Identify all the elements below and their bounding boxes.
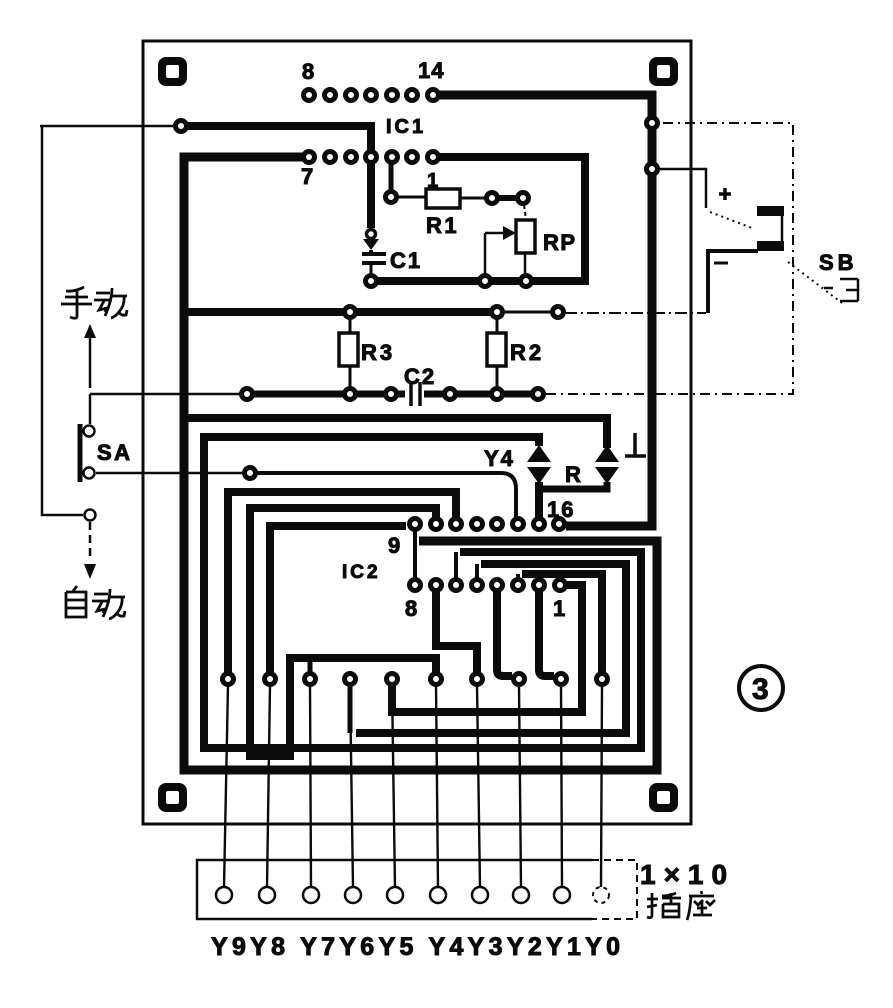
trace y394 thick xyxy=(254,391,405,398)
socket hole 10 dashed xyxy=(593,887,609,903)
wire C1 column xyxy=(367,163,375,228)
socket outline xyxy=(197,860,592,919)
trace B3: pin5 - Y6 xyxy=(356,564,626,733)
svg-text:7: 7 xyxy=(301,164,313,189)
RP wiper riser xyxy=(484,233,487,275)
svg-text:IC1: IC1 xyxy=(386,116,426,138)
stub IC2 pin6 xyxy=(454,552,458,578)
svg-text:R2: R2 xyxy=(510,340,544,365)
thick enclosure trace around R1/RP xyxy=(377,157,585,281)
capacitor C1 plates xyxy=(362,250,386,263)
trace pin2 - Y1 xyxy=(539,591,554,676)
C1 stub to pad xyxy=(370,264,373,276)
trace B4: pin3 - Y0 xyxy=(522,574,602,672)
trace y394 thick right xyxy=(424,391,532,398)
outer left wire xyxy=(42,126,83,515)
svg-text:1: 1 xyxy=(553,596,565,621)
R link triangle down xyxy=(595,467,619,484)
figure number 3 xyxy=(739,666,783,710)
pad RP top xyxy=(518,193,529,204)
manual arrow xyxy=(89,336,92,388)
wire y313 dash to SB minus xyxy=(565,312,706,314)
wire R1 pad to RP pad xyxy=(498,195,517,201)
dotted lead to contact xyxy=(710,212,752,228)
wire y312 thin right xyxy=(503,311,552,314)
switch SA lever xyxy=(78,424,83,482)
trace pin1 - Y5 xyxy=(392,585,582,712)
auto dashed arrow xyxy=(89,522,92,560)
svg-text:3: 3 xyxy=(752,673,769,706)
SB icon xyxy=(824,279,858,301)
svg-text:Y9Y8 Y7Y6Y5 Y4Y3Y2Y1Y0: Y9Y8 Y7Y6Y5 Y4Y3Y2Y1Y0 xyxy=(211,933,624,961)
svg-text:Y4: Y4 xyxy=(484,446,515,471)
wires to socket xyxy=(224,685,602,887)
pad RP bottom xyxy=(521,276,532,287)
svg-text:R: R xyxy=(565,462,581,487)
RP bottom lead xyxy=(524,253,527,275)
IC1 bottom pin row xyxy=(304,152,439,163)
stub IC2 pin8 xyxy=(413,530,417,578)
trace pin4 - Y2 xyxy=(497,591,512,676)
SB contact top xyxy=(757,206,784,216)
node left entry xyxy=(176,121,187,132)
node on right bus lower xyxy=(647,164,658,175)
wire SA trace to IC2 pin14 xyxy=(257,473,516,517)
minus sign xyxy=(714,262,728,265)
node y394 b xyxy=(386,389,397,400)
R link to pin15 column xyxy=(543,482,607,489)
resistor R2 xyxy=(496,318,499,333)
trace T5: pin9 to Y8 xyxy=(270,526,406,672)
RP wiper arrow xyxy=(485,232,504,235)
SB contact right edge xyxy=(781,214,784,243)
mounting hole bottom-left xyxy=(158,783,187,812)
R link triangle up xyxy=(595,445,619,462)
IC2 top pin row xyxy=(410,519,565,530)
svg-text:C2: C2 xyxy=(404,364,436,389)
pad R1 left xyxy=(386,192,397,203)
node on right bus upper xyxy=(647,118,658,129)
svg-text:SA: SA xyxy=(97,440,133,465)
SB contact bottom xyxy=(757,241,784,251)
supply trace y312 xyxy=(184,308,497,316)
svg-text:1×10: 1×10 xyxy=(640,859,735,890)
resistor R1 xyxy=(426,189,460,208)
wire SA lower to IC2 pin14 xyxy=(96,472,243,475)
wire IC1 pin14 to right bus and IC2 pin16 xyxy=(433,95,652,526)
trace T4: pin10 loop to Y4 band xyxy=(250,508,436,756)
node y394 R2 xyxy=(492,389,503,400)
pad R1 right xyxy=(487,193,498,204)
node below SA xyxy=(85,510,96,521)
node y394 R3 xyxy=(345,389,356,400)
node y394 a xyxy=(242,389,253,400)
node y394 c xyxy=(445,389,456,400)
trace pin7 - Y3 xyxy=(436,591,477,672)
wire R1 right lead xyxy=(460,197,486,200)
trace T2: Y4 link loop xyxy=(204,437,641,748)
wire left entry y126 xyxy=(40,125,174,128)
SB callout dotted xyxy=(788,262,842,303)
pad RP wiper bottom xyxy=(480,276,491,287)
SB minus wire xyxy=(708,251,758,313)
wire y126 to C1 column xyxy=(187,126,371,151)
mounting hole bottom-right xyxy=(649,783,678,812)
svg-text:8: 8 xyxy=(302,59,314,84)
svg-text:RP: RP xyxy=(543,230,577,255)
board outline xyxy=(143,41,691,824)
plus sign xyxy=(719,188,731,200)
dashed link pad to RP xyxy=(524,205,526,220)
svg-text:IC2: IC2 xyxy=(342,562,381,583)
auto label 自动 xyxy=(66,586,125,619)
switch SA upper contact xyxy=(84,426,95,437)
Y4 link triangle down xyxy=(527,467,551,484)
Y4 link triangle up xyxy=(527,445,551,462)
svg-text:14: 14 xyxy=(418,58,444,83)
mounting hole top-right xyxy=(649,57,678,86)
svg-text:C1: C1 xyxy=(390,248,422,273)
resistor R3 xyxy=(349,318,352,333)
svg-text:8: 8 xyxy=(405,596,417,621)
IC1 top pin row xyxy=(304,90,439,101)
socket holes xyxy=(216,887,570,903)
mounting hole top-left xyxy=(158,57,187,86)
IC2 bottom pin row xyxy=(410,580,566,591)
wire R1 left lead xyxy=(397,196,426,199)
trace T3: pin11 to Y9 xyxy=(228,492,456,672)
dashed SB enclosure xyxy=(546,123,793,394)
svg-text:1: 1 xyxy=(427,170,438,192)
pad C1 bottom xyxy=(366,276,377,287)
svg-text:SB: SB xyxy=(819,250,858,275)
svg-text:9: 9 xyxy=(388,533,400,558)
svg-text:R3: R3 xyxy=(361,340,395,365)
node y312 right xyxy=(553,307,564,318)
arrow into C1 xyxy=(367,230,376,239)
node y312 R3 xyxy=(345,307,356,318)
SB plus wire xyxy=(659,169,706,208)
svg-text:R1: R1 xyxy=(426,213,459,238)
capacitor C2 xyxy=(411,382,420,406)
switch SA lower contact xyxy=(84,468,95,479)
node y312 R2 xyxy=(492,307,503,318)
board output pads row xyxy=(223,674,608,685)
trace y394 left thin xyxy=(90,393,241,396)
potentiometer RP xyxy=(516,220,535,253)
stub Y7 xyxy=(308,658,313,672)
node y394 right xyxy=(533,389,544,400)
socket label 插座 xyxy=(647,891,715,920)
node SA trace xyxy=(245,468,256,479)
trace T1 to R link xyxy=(184,418,607,448)
ground border trace: IC1 pin7 - left border - bottom - right riser - IC2 pin8/9 xyxy=(184,157,657,770)
wire Y4 link to pin15 xyxy=(535,482,543,517)
ground mark xyxy=(625,433,646,456)
manual label 手动 xyxy=(61,287,127,318)
wire IC1 pin to R1 xyxy=(389,161,394,192)
wire y394 to SA upper xyxy=(89,394,92,424)
